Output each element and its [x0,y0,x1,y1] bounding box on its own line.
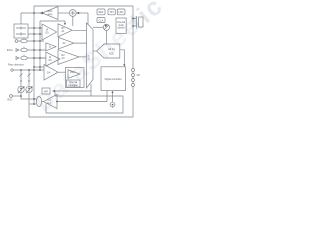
svg-text:ΔΣ 1A: ΔΣ 1A [108,48,115,51]
svg-text:LDO: LDO [119,11,124,14]
svg-text:ADC: ADC [109,53,114,56]
svg-text:bandgap: bandgap [69,84,79,87]
svg-text:RLD: RLD [8,99,13,102]
svg-text:1x: 1x [49,45,52,48]
svg-text:REF: REF [99,11,104,14]
svg-text:A1: A1 [62,30,66,33]
svg-text:Digital controller: Digital controller [105,78,122,81]
svg-text:amp: amp [48,13,53,16]
svg-text:MUX: MUX [88,54,91,60]
svg-text:GP: GP [137,74,141,77]
svg-text:▼: ▼ [112,103,114,106]
svg-text:Vref: Vref [70,71,75,74]
svg-text:Pace detection: Pace detection [8,64,24,67]
svg-text:divider: divider [118,27,125,30]
svg-text:A2: A2 [63,42,67,45]
svg-text:A3: A3 [62,57,66,60]
svg-text:G5: G5 [48,59,52,62]
svg-text:test: test [44,90,48,93]
svg-text:buf: buf [47,102,51,105]
svg-text:G5: G5 [45,31,49,34]
svg-text:GA: GA [47,71,51,74]
svg-text:ECG: ECG [7,48,13,52]
svg-text:TST: TST [109,11,114,14]
svg-text:CLK: CLK [99,19,104,22]
